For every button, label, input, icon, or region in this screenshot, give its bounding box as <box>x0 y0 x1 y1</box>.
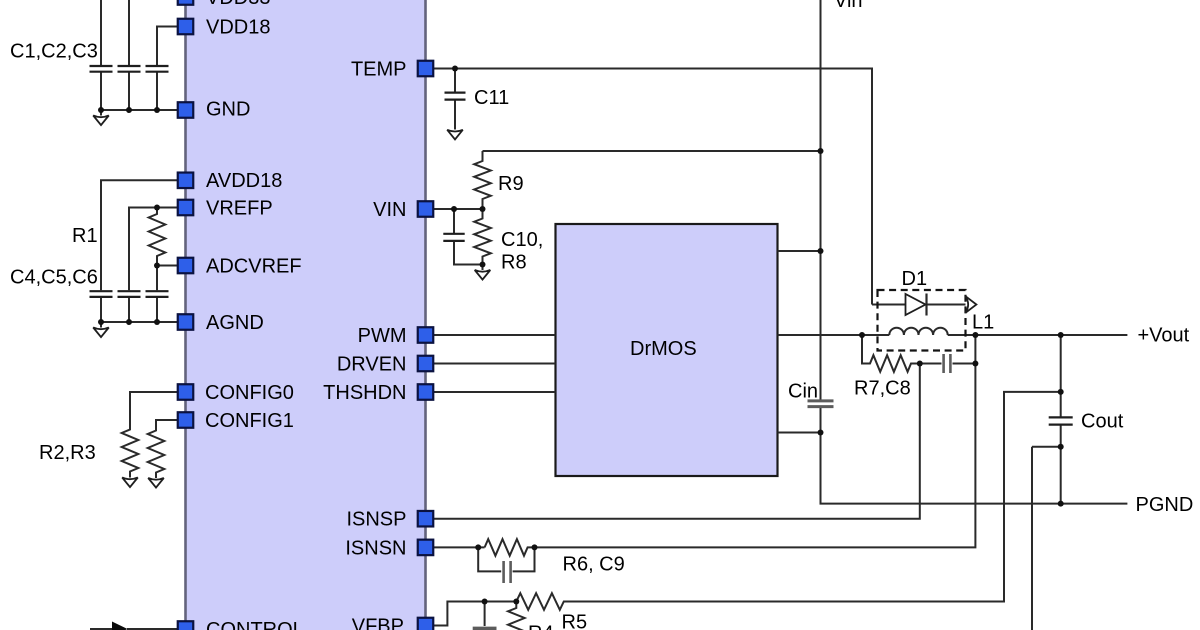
svg-text:L1: L1 <box>972 312 994 334</box>
svg-text:C10,: C10, <box>501 229 543 251</box>
svg-text:DRVEN: DRVEN <box>337 354 407 376</box>
svg-text:D1: D1 <box>902 268 928 290</box>
svg-text:AGND: AGND <box>206 312 264 334</box>
svg-text:Cin: Cin <box>788 381 818 403</box>
svg-text:VFBP: VFBP <box>352 616 404 630</box>
svg-text:ISNSN: ISNSN <box>345 538 406 560</box>
svg-text:R8: R8 <box>501 252 527 274</box>
svg-text:DrMOS: DrMOS <box>630 338 697 360</box>
svg-text:R2,R3: R2,R3 <box>39 442 96 464</box>
svg-text:R1: R1 <box>72 225 98 247</box>
svg-text:VDD33: VDD33 <box>206 0 270 9</box>
svg-text:VDD18: VDD18 <box>206 17 270 39</box>
svg-text:VREFP: VREFP <box>206 198 273 220</box>
svg-text:GND: GND <box>206 99 250 121</box>
svg-text:ADCVREF: ADCVREF <box>206 256 302 278</box>
svg-text:CONFIG1: CONFIG1 <box>205 410 294 432</box>
svg-text:TEMP: TEMP <box>351 59 407 81</box>
svg-text:AVDD18: AVDD18 <box>206 170 282 192</box>
svg-text:CONTROL: CONTROL <box>206 619 304 630</box>
svg-text:C4,C5,C6: C4,C5,C6 <box>10 267 98 289</box>
svg-text:+Vout: +Vout <box>1138 325 1190 347</box>
svg-text:PWM: PWM <box>358 325 407 347</box>
svg-text:THSHDN: THSHDN <box>323 382 406 404</box>
svg-text:ISNSP: ISNSP <box>346 509 406 531</box>
svg-text:PGND: PGND <box>1136 494 1194 516</box>
svg-text:Vin: Vin <box>834 0 863 12</box>
svg-text:R7,C8: R7,C8 <box>854 378 911 400</box>
svg-text:Cout: Cout <box>1081 411 1124 433</box>
svg-text:C11: C11 <box>474 87 509 109</box>
svg-text:C1,C2,C3: C1,C2,C3 <box>10 41 98 63</box>
svg-text:R4: R4 <box>528 623 554 630</box>
svg-text:VIN: VIN <box>373 199 406 221</box>
svg-text:R5: R5 <box>562 612 588 630</box>
svg-text:R6, C9: R6, C9 <box>563 554 625 576</box>
svg-text:CONFIG0: CONFIG0 <box>205 382 294 404</box>
svg-text:R9: R9 <box>498 173 524 195</box>
